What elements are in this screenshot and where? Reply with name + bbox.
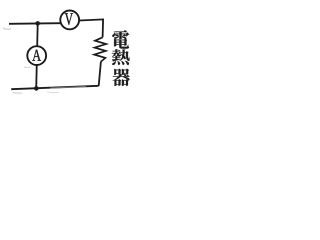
ammeter A: circle: [27, 46, 46, 65]
voltmeter V: letter: [65, 13, 73, 25]
node: junction dot on top wire: [35, 21, 40, 26]
faint page bleed-through marks: [3, 28, 11, 29]
resistor R (zigzag): [94, 37, 106, 61]
node: junction dot on bottom wire: [34, 86, 39, 91]
wire: resistor bottom lead down to bottom-right corner: [99, 62, 101, 86]
ammeter A: letter: [32, 50, 41, 61]
label: 熱 (second character): [112, 49, 130, 65]
wire: voltmeter right side to corner and down to resistor top: [79, 19, 103, 37]
wire: bottom horizontal: [11, 86, 99, 89]
voltmeter V: circle: [60, 11, 79, 30]
wire: ammeter branch vertical: [36, 23, 38, 88]
label: 電 (first character of 電熱器): [112, 30, 129, 49]
wire: top horizontal from left end to voltmeter: [9, 22, 61, 25]
label: 器 (third character): [113, 69, 130, 86]
